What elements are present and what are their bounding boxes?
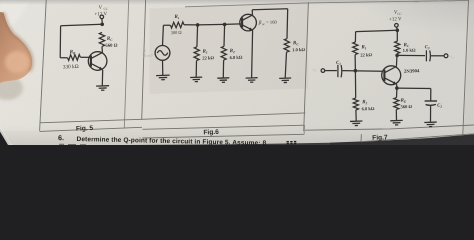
wire emitter node to C2 Fig.7 [397,87,431,89]
wire C2 top Fig.7 [430,89,432,101]
wire to RB Fig.5 [60,57,67,59]
svg-text:2N3904: 2N3904 [404,69,420,75]
resistor R2 Fig.7 [353,98,358,110]
wire feedback left Fig.5 [59,26,61,58]
table divider Fig5-Fig6 [142,0,146,120]
svg-text:300 Ω: 300 Ω [171,30,183,35]
svg-text:50 mV: 50 mV [142,53,153,58]
wire collector node to C3 [397,54,425,56]
wire R1 to base node Fig.7 [354,55,356,71]
resistor R1 Fig.7 [353,42,358,55]
wire RC top Fig.7 [396,30,398,41]
wire R1 top Fig.7 [354,32,356,42]
thumb edge shading [4,13,33,72]
svg-text:330 kΩ: 330 kΩ [63,64,79,71]
wire emitter down Fig.6 [252,30,253,77]
node base junction Fig.7 [354,69,358,73]
wire collector Q3 up [395,57,398,67]
wire C1 to base Fig.7 [342,70,382,73]
wire Rs to node1 Fig.6 [184,24,198,26]
resistor RC Fig.7 [395,41,400,53]
svg-text:R1: R1 [361,45,367,50]
node junction R2 Fig.6 [223,23,227,27]
wire node down R2 Fig.7 [354,71,356,98]
wire node1 to node2 Fig.6 [198,23,225,26]
svg-text:560 Ω: 560 Ω [400,104,412,109]
ground C2 Fig.7 [424,122,437,127]
wire emitter Q1 [101,70,103,86]
table right border [463,0,469,135]
Vcc terminal Fig.5 [100,15,104,19]
node junction R1 Fig.6 [196,23,200,27]
svg-text:RB: RB [70,50,77,55]
ground R2 Fig.7 [350,121,363,126]
wire node2 to base Fig.6 [225,23,241,26]
wire R2 to ground [222,60,224,78]
paper edge highlight bottom left [0,127,13,145]
node A junction Fig.5 [100,23,104,27]
dark desk background bottom left corner [0,128,11,145]
svg-text:R1: R1 [202,49,208,54]
wire Vcc down Fig.7 [396,27,399,29]
svg-text:Fig. 5: Fig. 5 [76,125,94,133]
wire RB to base Fig.5 [80,56,90,58]
svg-text:R2: R2 [362,100,368,105]
svg-text:Fig.7: Fig.7 [372,134,388,142]
svg-text:Fig.6: Fig.6 [203,129,219,137]
wire feedback top Fig.5 [61,24,103,25]
ground R1 Fig.6 [190,77,202,82]
svg-text:RC: RC [107,37,114,42]
label row bottom left [40,127,142,131]
wire top rail Fig.6 [252,9,288,10]
svg-text:CC: CC [104,7,108,11]
wire source up Fig.6 [162,25,165,45]
resistor RB [68,55,81,61]
wire C3 to output Fig.7 [431,55,444,57]
wire collector up Fig.6 [251,10,253,15]
Fig.7 caption band bottom [361,134,474,142]
wire emitter node to RE Fig.7 [396,88,398,98]
wire node2 down R2 [223,24,226,46]
paper bottom shading [0,124,474,145]
Fig.6 caption band top [143,125,305,129]
node collector junction Fig.7 [395,54,399,58]
ground Fig.5 [96,86,109,91]
thumb finger [0,12,32,83]
capacitor C2 [425,100,437,102]
ground RE Fig.7 [390,120,403,125]
Fig.5 box right border [124,0,128,128]
table divider Fig6-Fig7 [304,2,309,131]
svg-text:1.0 kΩ: 1.0 kΩ [292,47,305,52]
transistor Q2 Fig.6 [240,14,257,31]
ground RC Fig.6 [279,78,291,83]
paper top edge shading [0,0,474,5]
ac source VS Fig.6 [155,46,170,61]
wire C2 to ground Fig.7 [430,105,432,122]
wire collector node to RC Fig.7 [396,54,398,56]
svg-text:R2: R2 [230,49,236,54]
Fig.6 caption band bottom [142,134,304,138]
wire collector Q1 [101,46,103,52]
transistor Q1 [88,52,107,71]
resistor RS Fig.6 [170,22,184,28]
svg-text:22 kΩ: 22 kΩ [360,52,372,57]
dark desk background bottom mid [130,143,330,145]
svg-text:CC: CC [397,12,401,16]
table row line under figures [40,113,305,123]
thumb nail highlight [5,51,29,73]
capacitor C3 [425,50,427,61]
wire down to RC Fig.6 [286,9,289,39]
input terminal Fig.7 [321,69,325,73]
wire Vcc to node Fig.5 [101,19,103,23]
dark desk background bottom right [330,134,474,145]
wire source to ground Fig.6 [162,60,164,75]
wire RC to ground Fig.6 [285,52,286,78]
wire emitter Q3 down [396,84,398,86]
node Vcc junction Fig.7 [396,29,400,33]
wire Vcc to R1 Fig.7 [356,30,398,31]
resistor R2 Fig.6 [221,46,226,60]
svg-text:6.: 6. [58,134,64,142]
ground emitter Fig.6 [246,78,258,83]
right margin shade [464,0,474,134]
Fig.7 caption band top [305,125,474,130]
question text tail marks [287,142,297,144]
Fig.7 caption band left edge [360,134,362,142]
left margin brighter paper [0,0,46,131]
ground R2 Fig.6 [217,78,229,83]
table top border right [185,0,469,6]
svg-text:6.8 kΩ: 6.8 kΩ [229,55,242,60]
svg-text:1.0 kΩ: 1.0 kΩ [403,47,416,52]
figure backing Fig.6 [150,3,309,94]
wire to Rs Fig.6 [163,24,170,26]
next line remnant [59,143,86,146]
resistor RC Fig.6 [284,39,290,53]
capacitor C1 [337,65,339,77]
Vcc terminal Fig.7 [395,24,399,28]
wire RE to ground Fig.7 [395,110,397,121]
resistor RC Fig.5 [99,32,104,46]
output terminal Fig.7 [444,54,448,58]
ground source Fig.6 [156,75,170,80]
resistor RE Fig.7 [394,98,399,110]
svg-text:= 160: = 160 [266,20,278,25]
Fig.6 caption band right edge [303,125,305,134]
paper grain noise [0,0,474,145]
top right corner shading [280,0,474,60]
wire node1 down R1 [196,25,199,47]
transistor Q3 Fig.7 [382,66,401,85]
svg-text:560 Ω: 560 Ω [105,43,117,48]
top edge remnant marks [413,0,454,3]
wire input to C1 Fig.7 [325,70,337,72]
resistor R1 Fig.6 [194,47,199,61]
svg-text:6.8 kΩ: 6.8 kΩ [361,106,374,111]
svg-text:v: v [144,48,146,53]
svg-text:+12 V: +12 V [389,17,402,22]
svg-text:RC: RC [293,41,300,46]
table left border [40,0,47,131]
shadow under thumb [0,76,23,100]
wire R2 to ground Fig.7 [355,110,357,121]
node emitter junction Fig.7 [395,86,399,90]
wire R1 to ground [195,61,197,77]
svg-text:22 kΩ: 22 kΩ [202,55,214,60]
svg-text:RE: RE [400,98,407,103]
paper background [0,0,474,145]
top left corner bright wedge [0,0,30,36]
